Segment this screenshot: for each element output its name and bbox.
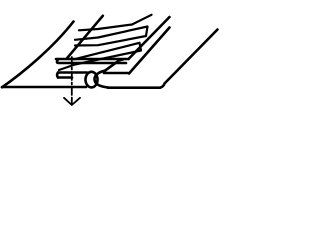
node H : fourth layer line T4 short (58, 76, 72, 79)
node M : right ply raw edge diagonal D4 (129, 28, 170, 74)
node J2 : right hook top arm rising to raw edge (105, 59, 123, 70)
node D : top fold extrusion diagonal D2 (67, 16, 103, 59)
node I : left hook curl loop (86, 72, 98, 88)
node O : right end extrusion diagonal D5 (160, 30, 218, 88)
node L : right ply raw edge diagonal D3 (129, 17, 170, 59)
node N : right ply bottom front edge H2 (108, 86, 160, 89)
node G : third layer line T3 left part (56, 73, 60, 78)
node A : left ply bottom front edge H1 (2, 86, 86, 89)
node Q : needle dash-dot line (71, 57, 73, 99)
wire (2, 15, 218, 105)
node P3 : zigzag thread top stroke (79, 15, 152, 30)
node B : left end extrusion diagonal D1 (2, 22, 74, 88)
node J : right hook open curl (95, 71, 110, 88)
node P2 : zigzag thread middle V strokes (75, 27, 148, 46)
node E : second layer line T2 with left fold cap (57, 60, 126, 63)
node P : zigzag thread lower V strokes (59, 43, 141, 70)
node R : arrowhead (64, 98, 80, 105)
node K : third layer right part (104, 72, 128, 75)
node C : top layer front edge T1 (56, 58, 129, 61)
